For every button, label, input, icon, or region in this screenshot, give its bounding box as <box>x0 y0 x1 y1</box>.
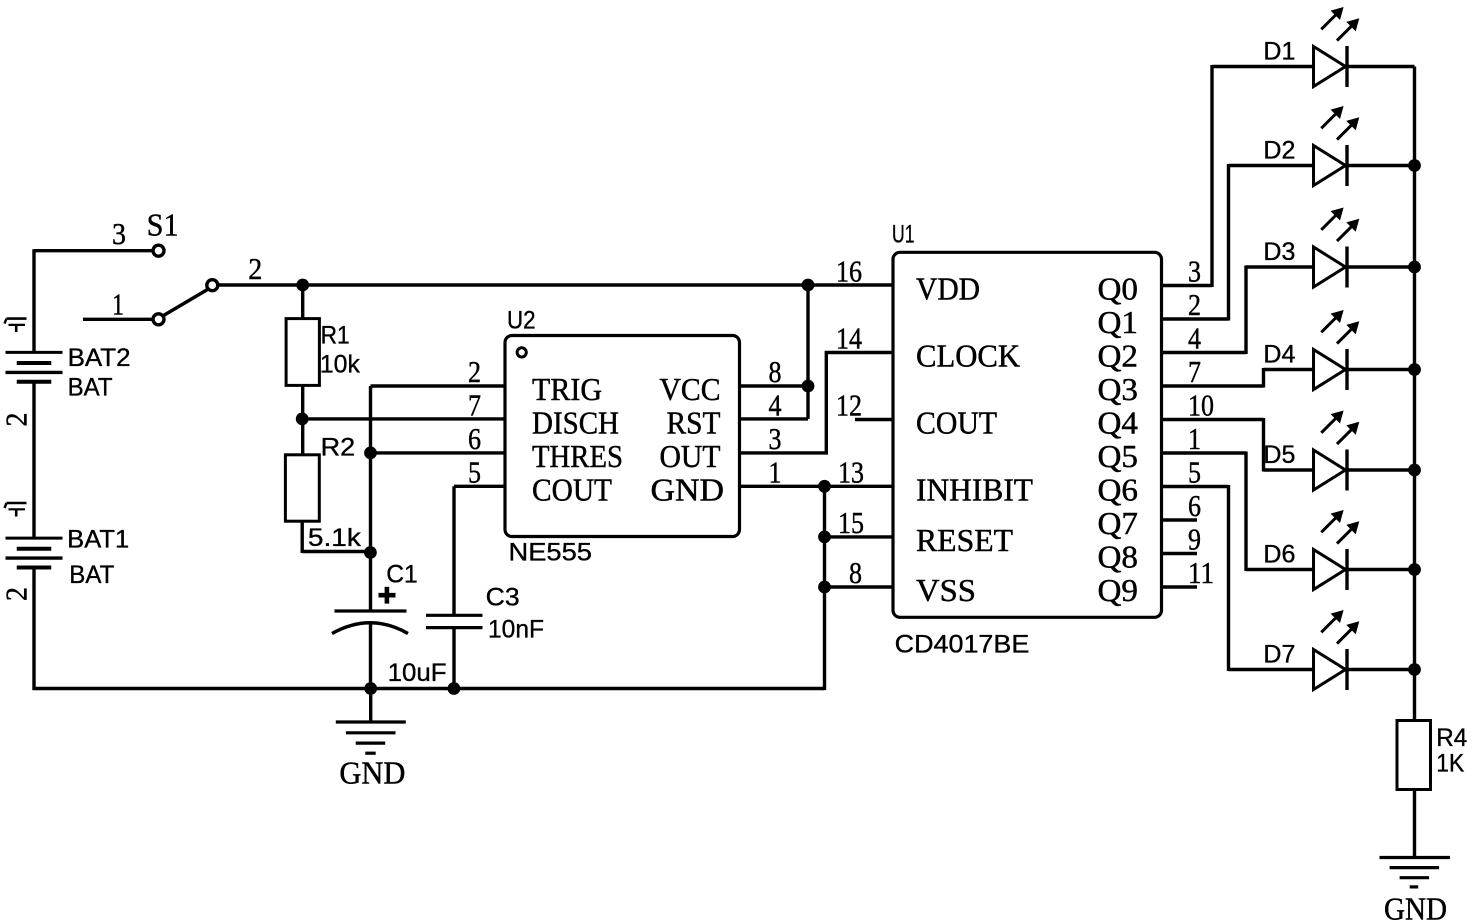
svg-text:Q5: Q5 <box>1098 438 1139 474</box>
svg-text:BAT: BAT <box>69 561 114 589</box>
svg-text:15: 15 <box>838 505 864 540</box>
svg-text:10nF: 10nF <box>488 616 544 644</box>
svg-text:THRES: THRES <box>532 438 623 474</box>
svg-text:Q7: Q7 <box>1098 505 1139 541</box>
svg-text:D5: D5 <box>1263 441 1295 469</box>
svg-text:9: 9 <box>1188 522 1201 557</box>
svg-text:BAT1: BAT1 <box>67 526 129 554</box>
svg-text:GND: GND <box>339 755 405 791</box>
svg-text:12: 12 <box>836 388 862 423</box>
svg-text:Q4: Q4 <box>1098 405 1139 441</box>
svg-text:1: 1 <box>112 287 124 322</box>
svg-text:Q8: Q8 <box>1098 539 1139 575</box>
svg-text:TRIG: TRIG <box>532 371 602 407</box>
svg-text:1: 1 <box>1188 421 1201 456</box>
svg-text:Q9: Q9 <box>1098 572 1139 608</box>
svg-text:D1: D1 <box>1263 38 1295 66</box>
svg-text:CD4017BE: CD4017BE <box>895 631 1030 659</box>
svg-text:5: 5 <box>468 455 481 490</box>
svg-text:Q0: Q0 <box>1098 271 1139 307</box>
svg-text:C1: C1 <box>386 560 418 588</box>
svg-text:COUT: COUT <box>916 405 997 441</box>
svg-text:VSS: VSS <box>916 572 976 608</box>
svg-text:10uF: 10uF <box>388 659 447 687</box>
svg-text:6: 6 <box>1188 488 1201 523</box>
svg-text:10: 10 <box>1188 388 1214 423</box>
svg-text:2: 2 <box>468 354 481 389</box>
svg-text:S1: S1 <box>147 207 179 243</box>
svg-text:U1: U1 <box>892 221 915 249</box>
svg-text:Q6: Q6 <box>1098 472 1139 508</box>
svg-text:5.1k: 5.1k <box>308 524 362 552</box>
svg-text:INHIBIT: INHIBIT <box>916 472 1033 508</box>
svg-text:D4: D4 <box>1263 341 1295 369</box>
svg-text:Q1: Q1 <box>1098 304 1139 340</box>
svg-text:D7: D7 <box>1263 641 1295 669</box>
svg-text:RST: RST <box>667 405 721 441</box>
svg-text:8: 8 <box>769 354 782 389</box>
svg-text:2: 2 <box>0 413 34 427</box>
svg-text:NE555: NE555 <box>509 539 593 567</box>
svg-text:13: 13 <box>838 455 864 490</box>
svg-text:C3: C3 <box>486 584 520 612</box>
svg-text:3: 3 <box>1188 254 1201 289</box>
svg-text:VDD: VDD <box>916 271 980 307</box>
svg-text:RESET: RESET <box>916 522 1013 558</box>
svg-text:5: 5 <box>1188 455 1201 490</box>
svg-text:4: 4 <box>1188 321 1201 356</box>
svg-text:GND: GND <box>1384 891 1447 923</box>
svg-text:CLOCK: CLOCK <box>916 338 1020 374</box>
svg-text:OUT: OUT <box>660 438 721 474</box>
svg-text:1K: 1K <box>1436 749 1464 777</box>
svg-text:11: 11 <box>1188 555 1214 590</box>
svg-text:BAT2: BAT2 <box>68 344 131 372</box>
svg-text:7: 7 <box>1188 354 1201 389</box>
svg-text:U2: U2 <box>507 307 536 335</box>
svg-text:3: 3 <box>112 216 126 251</box>
svg-text:10k: 10k <box>320 351 360 379</box>
svg-text:3: 3 <box>769 421 782 456</box>
svg-text:DISCH: DISCH <box>532 405 619 441</box>
svg-text:Q2: Q2 <box>1098 338 1139 374</box>
svg-text:6: 6 <box>468 421 481 456</box>
svg-text:R2: R2 <box>321 434 356 462</box>
svg-text:COUT: COUT <box>532 472 612 508</box>
svg-text:D6: D6 <box>1263 541 1295 569</box>
svg-text:16: 16 <box>836 254 862 289</box>
svg-text:GND: GND <box>651 472 725 508</box>
svg-text:2: 2 <box>1188 287 1201 322</box>
svg-text:4: 4 <box>769 388 782 423</box>
svg-text:BAT: BAT <box>68 373 113 401</box>
svg-text:Q3: Q3 <box>1098 371 1139 407</box>
svg-text:2: 2 <box>248 251 262 286</box>
svg-text:R1: R1 <box>321 321 350 349</box>
svg-text:VCC: VCC <box>660 371 721 407</box>
svg-text:R4: R4 <box>1436 724 1467 752</box>
svg-text:8: 8 <box>849 555 862 590</box>
svg-text:D2: D2 <box>1263 137 1295 165</box>
svg-text:1: 1 <box>769 455 782 490</box>
svg-text:7: 7 <box>468 388 481 423</box>
svg-text:D3: D3 <box>1263 238 1295 266</box>
svg-text:2: 2 <box>0 587 34 601</box>
svg-text:14: 14 <box>836 321 862 356</box>
